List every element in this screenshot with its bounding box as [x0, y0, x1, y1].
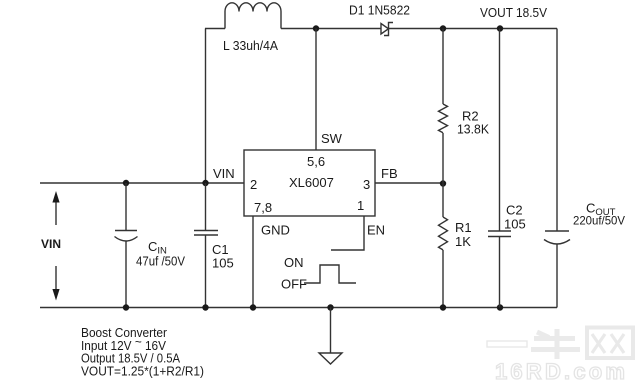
svg-text:105: 105 — [504, 217, 526, 232]
svg-text:2: 2 — [250, 177, 257, 192]
ground — [319, 308, 342, 365]
watermark wang glyph — [587, 328, 633, 359]
inductor L1 — [225, 3, 281, 29]
capacitor CIN — [115, 183, 138, 308]
op-amp U1 XL6007 box — [244, 150, 375, 216]
svg-text:R1: R1 — [455, 220, 472, 235]
wire top rail right segment to VOUT corner — [389, 28, 558, 30]
wire VIN rail — [40, 182, 244, 184]
svg-text:OFF: OFF — [281, 277, 307, 292]
junction dot C1 bottom — [202, 304, 208, 310]
diode D1 — [381, 23, 393, 36]
svg-text:SW: SW — [321, 131, 343, 146]
svg-text:3: 3 — [363, 177, 370, 192]
watermark yi stroke — [487, 341, 527, 347]
VIN source arrow up — [52, 191, 59, 225]
junction dot R1 bottom — [440, 304, 446, 310]
wire GND pin vertical — [252, 216, 254, 308]
junction dot R2 top — [440, 25, 446, 31]
svg-text:EN: EN — [367, 223, 385, 238]
wire top rail middle segment — [281, 28, 381, 30]
wire SW vertical — [315, 29, 317, 151]
svg-text:VIN: VIN — [41, 237, 61, 251]
junction dot GND pin bottom — [250, 304, 256, 310]
junction dot FB node — [440, 180, 446, 186]
svg-text:13.8K: 13.8K — [457, 122, 489, 137]
svg-text:105: 105 — [212, 256, 234, 271]
svg-text:D1 1N5822: D1 1N5822 — [349, 3, 410, 18]
svg-text:VOUT=1.25*(1+R2/R1): VOUT=1.25*(1+R2/R1) — [81, 364, 204, 379]
svg-text:VIN: VIN — [213, 166, 235, 181]
svg-text:FB: FB — [381, 166, 398, 181]
wire FB to divider — [375, 182, 443, 184]
wire left vertical from inductor to VIN rail — [205, 29, 207, 184]
wire top rail left segment — [205, 28, 225, 30]
wire EN pin — [331, 216, 364, 250]
svg-text:C2: C2 — [506, 203, 523, 218]
svg-text:VOUT 18.5V: VOUT 18.5V — [480, 5, 547, 20]
watermark niu glyph — [531, 329, 580, 359]
VIN source arrow down — [52, 266, 59, 301]
svg-text:1: 1 — [357, 198, 364, 213]
svg-text:XL6007: XL6007 — [289, 175, 334, 190]
capacitor COUT — [544, 29, 570, 308]
junction dot SW/top — [313, 25, 319, 31]
resistor R2 — [439, 104, 448, 133]
svg-text:GND: GND — [261, 223, 290, 238]
capacitor C2 — [488, 29, 511, 308]
junction dot CIN bottom — [123, 304, 129, 310]
wire R1 bottom lead — [442, 250, 444, 308]
junction dot CIN top — [123, 180, 129, 186]
svg-text:7,8: 7,8 — [254, 200, 272, 215]
svg-text:5,6: 5,6 — [307, 154, 325, 169]
enable pulse waveform — [304, 265, 356, 283]
junction dot C1 top — [202, 180, 208, 186]
svg-text:1K: 1K — [455, 234, 471, 249]
junction dot ground stem — [327, 304, 333, 310]
wire R2 leads — [442, 29, 444, 218]
junction dot C2 top — [497, 25, 503, 31]
svg-text:220uf/50V: 220uf/50V — [573, 214, 625, 228]
capacitor C1 — [194, 183, 218, 308]
junction dot C2 bottom — [497, 304, 503, 310]
svg-text:16RD.com: 16RD.com — [495, 359, 628, 383]
svg-text:L 33uh/4A: L 33uh/4A — [223, 38, 278, 53]
wire bottom rail — [40, 307, 557, 309]
svg-text:47uf /50V: 47uf /50V — [136, 255, 186, 269]
resistor R1 — [439, 217, 448, 250]
svg-text:ON: ON — [284, 255, 304, 270]
